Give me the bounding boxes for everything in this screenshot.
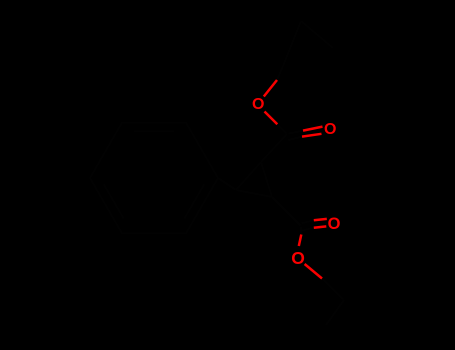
bond CH2-CH3 top: [301, 21, 333, 48]
red bond C2=O3 lower half: [314, 226, 327, 227]
benzene inner double bond 5: [184, 184, 204, 218]
svg-text:O: O: [324, 121, 336, 138]
bond ring R2-R3: [236, 190, 272, 197]
bond CH2-CH3 bottom: [326, 300, 344, 325]
bond C1=O2 lower dark: [288, 137, 302, 141]
bond ring R3-R1: [236, 162, 261, 190]
red bond O1-CH2 half: [264, 80, 277, 97]
red bond C1=O2 lower half: [302, 134, 322, 137]
red bond C1=O2 upper half: [303, 127, 323, 131]
bond O1-CH2 rest: [277, 66, 283, 80]
red bond O4-CH2 half: [305, 264, 322, 279]
bond ring R1-R2: [261, 162, 272, 197]
svg-text:O: O: [328, 215, 341, 233]
phenyl-cyclopropane bond: [218, 178, 236, 190]
bond R2-C2: [272, 197, 301, 226]
svg-text:O: O: [252, 96, 264, 113]
bond O4-CH2 rest: [322, 279, 344, 301]
bond C1=O2 upper dark: [289, 131, 304, 134]
benzene inner double bond 1: [134, 130, 174, 132]
benzene ring: [90, 123, 218, 234]
red bond C2-O4 half: [299, 235, 302, 247]
bond C1-R1: [261, 134, 287, 162]
bond C2-O4 dark: [300, 227, 303, 235]
bond CH2-CH2 top: [283, 21, 301, 66]
red bond C2=O3 upper half: [314, 219, 327, 220]
bond C2=O3 lower dark: [301, 228, 314, 231]
red bond O1-C1 half: [265, 112, 278, 125]
benzene inner double bond 3: [104, 184, 124, 218]
bond C2=O3 upper dark: [302, 220, 314, 223]
bond O1-C1 rest: [277, 124, 287, 134]
svg-text:O: O: [291, 248, 305, 268]
